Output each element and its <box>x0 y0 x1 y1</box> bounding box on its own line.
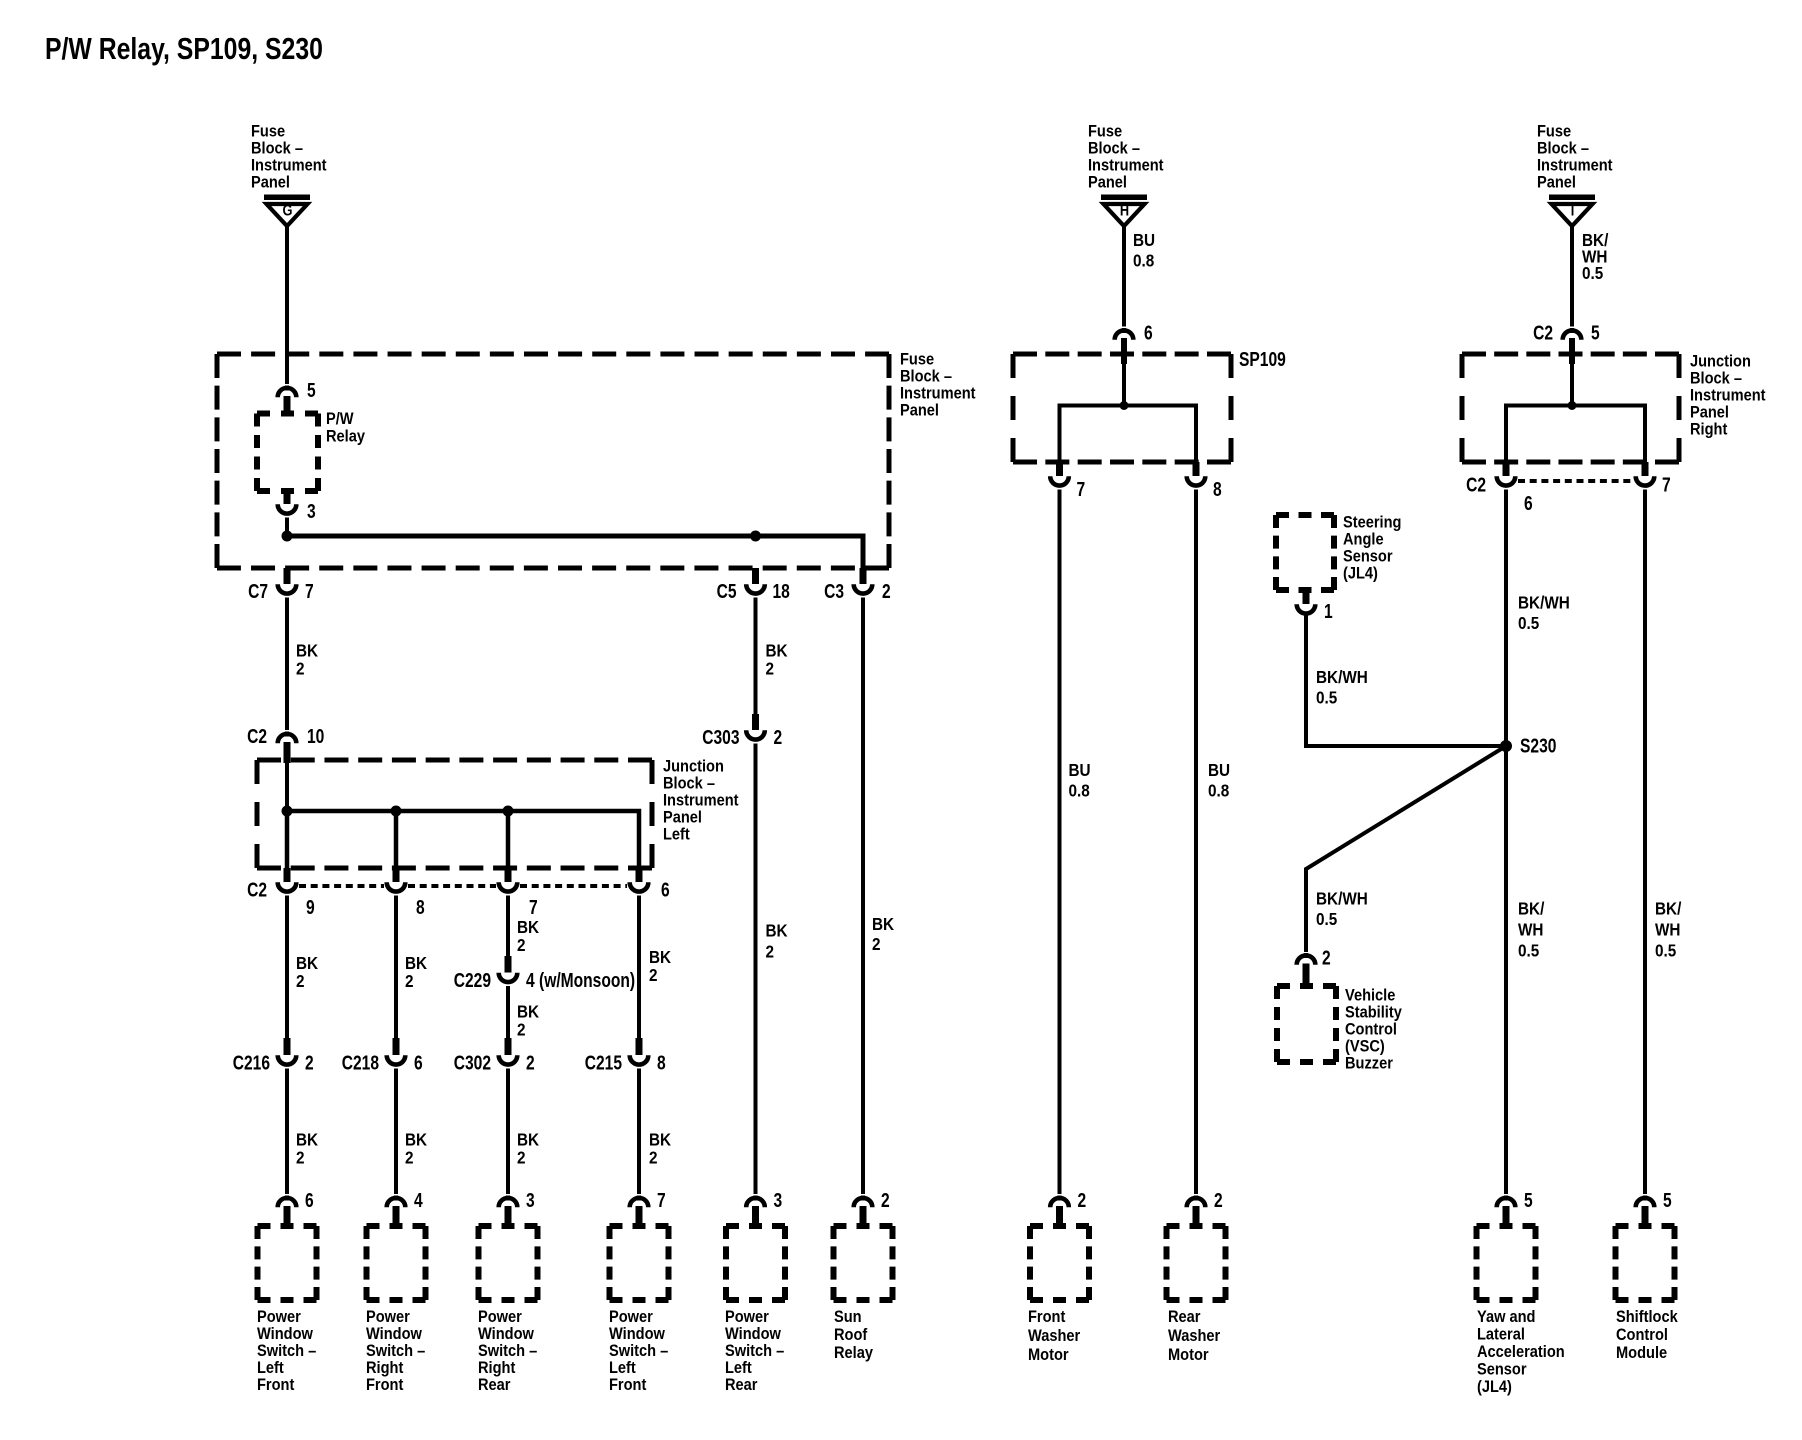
svg-text:Front: Front <box>257 1376 295 1394</box>
svg-text:0.5: 0.5 <box>1582 263 1603 283</box>
grid triangle I <box>1549 195 1595 227</box>
svg-text:2: 2 <box>649 1147 658 1167</box>
node at pin3 bus left <box>282 531 293 542</box>
svg-text:Left: Left <box>663 826 690 844</box>
steering angle sensor box <box>1276 515 1334 590</box>
power window switch - right rear box <box>479 1226 538 1300</box>
svg-text:(JL4): (JL4) <box>1477 1378 1512 1396</box>
svg-text:C3: C3 <box>824 580 844 602</box>
wire junction right bus and legs <box>1506 406 1645 463</box>
svg-text:Right: Right <box>478 1359 516 1377</box>
svg-text:3: 3 <box>774 1189 783 1211</box>
wire col3 to switch <box>506 1069 510 1195</box>
wire jbl bus <box>287 811 639 868</box>
svg-text:7: 7 <box>1662 474 1671 496</box>
svg-text:S230: S230 <box>1520 735 1556 757</box>
svg-text:6: 6 <box>661 879 670 901</box>
svg-text:0.5: 0.5 <box>1518 613 1539 633</box>
svg-text:2: 2 <box>526 1052 535 1074</box>
svg-text:C229: C229 <box>454 969 491 991</box>
svg-text:Instrument: Instrument <box>663 792 739 810</box>
connector SAS pin 1 <box>1297 590 1316 614</box>
svg-text:2: 2 <box>766 941 775 961</box>
svg-text:Stability: Stability <box>1345 1004 1402 1022</box>
svg-text:Power: Power <box>609 1308 653 1326</box>
svg-text:3: 3 <box>526 1189 535 1211</box>
svg-text:2: 2 <box>882 580 891 602</box>
wire pin3 to bus <box>285 518 289 539</box>
svg-text:Front: Front <box>1028 1308 1066 1326</box>
wire S230 diagonal to VSC <box>1306 746 1506 952</box>
svg-text:Yaw and: Yaw and <box>1477 1308 1535 1326</box>
svg-text:Window: Window <box>725 1325 781 1343</box>
front washer motor box <box>1030 1226 1089 1300</box>
svg-text:2: 2 <box>872 934 881 954</box>
connector VSC pin 2 <box>1297 953 1316 986</box>
shiftlock control module box <box>1616 1226 1675 1300</box>
svg-text:Window: Window <box>366 1325 422 1343</box>
connector C229 pin 4 <box>499 956 518 982</box>
svg-text:8: 8 <box>416 896 425 918</box>
connector C303 pin 2 <box>746 714 765 740</box>
svg-text:Instrument: Instrument <box>900 385 976 403</box>
svg-text:WH: WH <box>1655 919 1680 939</box>
svg-text:Window: Window <box>609 1325 665 1343</box>
svg-text:5: 5 <box>307 379 316 401</box>
svg-text:Block –: Block – <box>1088 140 1140 158</box>
junction block right box <box>1462 354 1679 462</box>
svg-text:2: 2 <box>1214 1189 1223 1211</box>
wire C2 pin10 into junction block <box>285 763 289 811</box>
svg-text:Power: Power <box>257 1308 301 1326</box>
power window switch - left rear box <box>726 1226 785 1300</box>
wire col3 C229 to C302 <box>506 986 510 1038</box>
svg-text:Power: Power <box>478 1308 522 1326</box>
svg-text:WH: WH <box>1518 919 1543 939</box>
svg-text:H: H <box>1120 202 1129 220</box>
svg-text:2: 2 <box>296 971 305 991</box>
connector C2 pin 7 <box>499 868 518 892</box>
svg-text:BK/WH: BK/WH <box>1316 888 1368 908</box>
connector pin 2 (rear washer motor) <box>1187 1196 1206 1227</box>
svg-text:C7: C7 <box>248 580 268 602</box>
svg-text:2: 2 <box>774 726 783 748</box>
svg-text:C5: C5 <box>717 580 737 602</box>
svg-text:Fuse: Fuse <box>900 351 934 369</box>
svg-text:Panel: Panel <box>1088 174 1127 192</box>
wire I triangle down <box>1570 226 1574 327</box>
junction block left box <box>257 760 652 868</box>
svg-text:5: 5 <box>1663 1189 1672 1211</box>
svg-text:Angle: Angle <box>1343 531 1384 549</box>
svg-text:2: 2 <box>881 1189 890 1211</box>
connector C7 pin 7 <box>278 568 297 594</box>
node bus at C5 branch <box>750 531 761 542</box>
connector pin 5 (P/W Relay) <box>278 386 297 414</box>
svg-text:7: 7 <box>529 896 538 918</box>
svg-text:4: 4 <box>414 1189 423 1211</box>
svg-text:Power: Power <box>366 1308 410 1326</box>
connector C302 pin 2 <box>499 1038 518 1065</box>
wire col2 to switch <box>394 1069 398 1195</box>
svg-text:BU: BU <box>1208 760 1230 780</box>
svg-text:Shiftlock: Shiftlock <box>1616 1308 1678 1326</box>
svg-text:2: 2 <box>296 658 305 678</box>
svg-text:6: 6 <box>1144 322 1153 344</box>
svg-text:C216: C216 <box>233 1052 270 1074</box>
connector pin 6 (power window switch - left front) <box>278 1196 297 1227</box>
connector C2 pin 5 (junction right) <box>1563 328 1582 364</box>
svg-text:Right: Right <box>366 1359 404 1377</box>
svg-text:Instrument: Instrument <box>251 157 327 175</box>
svg-text:Acceleration: Acceleration <box>1477 1343 1565 1361</box>
connector C2 pin 8 <box>387 868 406 892</box>
svg-text:(JL4): (JL4) <box>1343 565 1378 583</box>
svg-text:2: 2 <box>649 965 658 985</box>
wire bus inside fuse block <box>287 536 863 569</box>
svg-text:0.5: 0.5 <box>1316 909 1337 929</box>
svg-text:6: 6 <box>414 1052 423 1074</box>
svg-text:1: 1 <box>1324 600 1333 622</box>
connector pin 4 (power window switch - right front) <box>387 1196 406 1227</box>
svg-text:Sensor: Sensor <box>1343 548 1393 566</box>
svg-text:BK/WH: BK/WH <box>1518 592 1570 612</box>
svg-text:Lateral: Lateral <box>1477 1326 1525 1344</box>
grid triangle G <box>264 195 310 227</box>
connector pin 3 (power window switch - right rear) <box>499 1196 518 1227</box>
svg-text:C2: C2 <box>247 879 267 901</box>
svg-text:Block –: Block – <box>900 368 952 386</box>
wire SAS to S230 <box>1306 615 1506 746</box>
svg-text:Panel: Panel <box>663 809 702 827</box>
svg-text:2: 2 <box>517 1019 526 1039</box>
svg-text:6: 6 <box>1524 492 1533 514</box>
connector pin 5 (yaw and lateral acceleration sensor) <box>1497 1196 1516 1227</box>
svg-text:I: I <box>1571 202 1575 220</box>
svg-text:Window: Window <box>478 1325 534 1343</box>
wire col2 C2 to C218 <box>394 896 398 1039</box>
connector C2 pin 9 <box>278 868 297 892</box>
connector C215 pin 8 <box>630 1038 649 1065</box>
wire col1 C2 to C216 <box>285 896 289 1039</box>
svg-text:Switch –: Switch – <box>725 1342 784 1360</box>
wire C303 to left rear switch <box>754 744 758 1195</box>
svg-text:7: 7 <box>657 1189 666 1211</box>
wire G triangle to pin 5 <box>285 226 289 384</box>
svg-text:P/W Relay, SP109, S230: P/W Relay, SP109, S230 <box>45 31 323 65</box>
connector pin 2 (sun roof relay) <box>854 1196 873 1227</box>
svg-text:Instrument: Instrument <box>1088 157 1164 175</box>
svg-text:C302: C302 <box>454 1052 491 1074</box>
svg-text:Window: Window <box>257 1325 313 1343</box>
fuse block - instrument panel dashed box <box>217 354 889 568</box>
svg-text:9: 9 <box>306 896 315 918</box>
wire col1 to switch <box>285 1069 289 1195</box>
svg-text:Rear: Rear <box>1168 1308 1200 1326</box>
connector C2 pin 6 (junction right) <box>1497 462 1516 486</box>
connector C218 pin 6 <box>387 1038 406 1065</box>
svg-text:Rear: Rear <box>478 1376 510 1394</box>
connector SP109 pin 7 <box>1050 462 1069 486</box>
connector C2 pin 6 <box>630 868 649 892</box>
svg-text:7: 7 <box>305 580 314 602</box>
svg-text:G: G <box>283 202 293 220</box>
connector pin 3 (P/W Relay) <box>278 491 297 514</box>
svg-text:Switch –: Switch – <box>366 1342 425 1360</box>
connector C3 pin 2 <box>854 568 873 594</box>
connector C2 pin 10 <box>278 732 297 764</box>
svg-text:4 (w/Monsoon): 4 (w/Monsoon) <box>526 969 635 991</box>
svg-text:C303: C303 <box>702 726 739 748</box>
svg-text:Motor: Motor <box>1028 1346 1069 1364</box>
svg-text:Steering: Steering <box>1343 514 1401 532</box>
power window switch - right front box <box>367 1226 426 1300</box>
svg-text:2: 2 <box>1078 1189 1087 1211</box>
svg-text:Junction: Junction <box>1690 353 1751 371</box>
svg-text:Instrument: Instrument <box>1690 387 1766 405</box>
wire pin7 to shiftlock <box>1643 490 1647 1195</box>
wire H triangle down <box>1122 226 1126 327</box>
svg-text:Washer: Washer <box>1028 1327 1080 1345</box>
svg-text:18: 18 <box>773 580 790 602</box>
svg-text:3: 3 <box>307 500 316 522</box>
wire jbl col1 down <box>285 811 290 868</box>
connector SP109 pin 6 <box>1115 328 1134 364</box>
node jbl bus col2 <box>391 806 402 817</box>
svg-text:C215: C215 <box>585 1052 622 1074</box>
svg-text:C2: C2 <box>1466 474 1486 496</box>
svg-text:Fuse: Fuse <box>1537 123 1571 141</box>
svg-text:Right: Right <box>1690 421 1728 439</box>
svg-text:Sensor: Sensor <box>1477 1361 1527 1379</box>
svg-text:Module: Module <box>1616 1344 1667 1362</box>
svg-text:BK/: BK/ <box>1518 898 1545 918</box>
svg-text:BK: BK <box>872 914 894 934</box>
svg-text:Buzzer: Buzzer <box>1345 1055 1393 1073</box>
svg-text:10: 10 <box>307 725 324 747</box>
svg-text:Vehicle: Vehicle <box>1345 987 1396 1005</box>
node SP109 split <box>1120 401 1129 410</box>
svg-text:C218: C218 <box>342 1052 379 1074</box>
wire col3 C2 to C229 <box>506 896 510 957</box>
power window switch - left front box <box>258 1226 317 1300</box>
svg-text:Sun: Sun <box>834 1308 862 1326</box>
svg-text:BK/: BK/ <box>1655 898 1682 918</box>
connector pin 7 (junction right) <box>1636 462 1655 486</box>
svg-text:0.5: 0.5 <box>1518 940 1539 960</box>
vehicle stability control buzzer box <box>1277 986 1336 1062</box>
connector C216 pin 2 <box>278 1038 297 1065</box>
connector C5 pin 18 <box>746 568 765 594</box>
svg-text:Power: Power <box>725 1308 769 1326</box>
svg-text:C2: C2 <box>247 725 267 747</box>
svg-text:Front: Front <box>366 1376 404 1394</box>
wire col4 C2 to C215 <box>637 896 641 1039</box>
wire C3 to sun roof relay <box>861 598 865 1195</box>
svg-text:Instrument: Instrument <box>1537 157 1613 175</box>
svg-text:8: 8 <box>1213 478 1222 500</box>
grid triangle H <box>1101 195 1147 227</box>
svg-text:Roof: Roof <box>834 1326 868 1344</box>
svg-text:2: 2 <box>305 1052 314 1074</box>
connector pin 7 (power window switch - left front (2)) <box>630 1196 649 1227</box>
svg-text:Block –: Block – <box>251 140 303 158</box>
svg-text:Relay: Relay <box>326 428 365 446</box>
dotted connector row C2 <box>299 884 627 888</box>
wire jbl col2 down <box>394 811 399 868</box>
svg-text:Switch –: Switch – <box>609 1342 668 1360</box>
connector SP109 pin 8 <box>1187 462 1206 486</box>
node junction right split <box>1568 401 1577 410</box>
node jbl bus col1 <box>282 806 293 817</box>
svg-text:2: 2 <box>405 971 414 991</box>
svg-text:6: 6 <box>305 1189 314 1211</box>
svg-text:Relay: Relay <box>834 1344 873 1362</box>
rear washer motor box <box>1167 1226 1226 1300</box>
svg-text:Control: Control <box>1345 1021 1397 1039</box>
svg-text:0.8: 0.8 <box>1069 780 1090 800</box>
svg-text:Left: Left <box>725 1359 752 1377</box>
svg-text:BU: BU <box>1069 760 1091 780</box>
svg-text:2: 2 <box>405 1147 414 1167</box>
svg-text:Switch –: Switch – <box>478 1342 537 1360</box>
wire C7 to C2 <box>285 598 289 731</box>
svg-text:Front: Front <box>609 1376 647 1394</box>
wire col4 to switch <box>637 1069 641 1195</box>
svg-text:7: 7 <box>1077 478 1086 500</box>
svg-text:Left: Left <box>609 1359 636 1377</box>
svg-text:0.5: 0.5 <box>1655 940 1676 960</box>
svg-text:0.8: 0.8 <box>1208 780 1229 800</box>
wire jbl col3 down <box>506 811 511 868</box>
yaw and lateral acceleration sensor box <box>1477 1226 1536 1300</box>
svg-text:BK: BK <box>766 920 788 940</box>
node S230 <box>1500 740 1512 752</box>
svg-text:2: 2 <box>296 1147 305 1167</box>
svg-text:Block –: Block – <box>663 775 715 793</box>
svg-text:SP109: SP109 <box>1239 348 1286 370</box>
svg-text:5: 5 <box>1524 1189 1533 1211</box>
SP109 dashed box <box>1013 354 1231 462</box>
svg-text:Rear: Rear <box>725 1376 757 1394</box>
wire C5 to C303 <box>754 598 758 715</box>
svg-text:Block –: Block – <box>1690 370 1742 388</box>
connector pin 5 (shiftlock control module) <box>1636 1196 1655 1227</box>
wire SP109 feed <box>1122 360 1126 406</box>
wire pin7 to front washer <box>1058 490 1062 1195</box>
node jbl bus col3 <box>503 806 514 817</box>
svg-text:2: 2 <box>517 1147 526 1167</box>
svg-text:C2: C2 <box>1533 322 1553 344</box>
wire pin8 to rear washer <box>1194 490 1198 1195</box>
svg-text:(VSC): (VSC) <box>1345 1038 1385 1056</box>
svg-text:2: 2 <box>517 935 526 955</box>
svg-text:Switch –: Switch – <box>257 1342 316 1360</box>
svg-text:Panel: Panel <box>1537 174 1576 192</box>
svg-text:Junction: Junction <box>663 758 724 776</box>
svg-text:BU: BU <box>1133 230 1155 250</box>
P/W relay box <box>257 414 318 492</box>
svg-text:Fuse: Fuse <box>251 123 285 141</box>
svg-text:BK/WH: BK/WH <box>1316 667 1368 687</box>
sun roof relay box <box>834 1226 893 1300</box>
svg-text:Left: Left <box>257 1359 284 1377</box>
svg-text:Washer: Washer <box>1168 1327 1220 1345</box>
svg-text:Control: Control <box>1616 1326 1668 1344</box>
connector pin 3 (power window switch - left rear) <box>746 1196 765 1227</box>
svg-text:5: 5 <box>1591 322 1600 344</box>
svg-text:Motor: Motor <box>1168 1346 1209 1364</box>
svg-text:8: 8 <box>657 1052 666 1074</box>
svg-text:Panel: Panel <box>900 402 939 420</box>
svg-text:Fuse: Fuse <box>1088 123 1122 141</box>
connector pin 2 (front washer motor) <box>1050 1196 1069 1227</box>
svg-text:2: 2 <box>766 658 775 678</box>
wire C2 pin6 to yaw sensor <box>1504 490 1508 1195</box>
svg-text:0.5: 0.5 <box>1316 687 1337 707</box>
svg-text:Panel: Panel <box>1690 404 1729 422</box>
wire SP109 bus and legs <box>1060 406 1197 463</box>
svg-text:P/W: P/W <box>326 410 354 428</box>
svg-text:0.8: 0.8 <box>1133 250 1154 270</box>
wire junction right feed <box>1570 360 1574 406</box>
svg-text:2: 2 <box>1322 947 1331 969</box>
power window switch - left front (2) box <box>610 1226 669 1300</box>
dotted connector row junction right <box>1518 479 1633 483</box>
svg-text:Panel: Panel <box>251 174 290 192</box>
svg-text:Block –: Block – <box>1537 140 1589 158</box>
